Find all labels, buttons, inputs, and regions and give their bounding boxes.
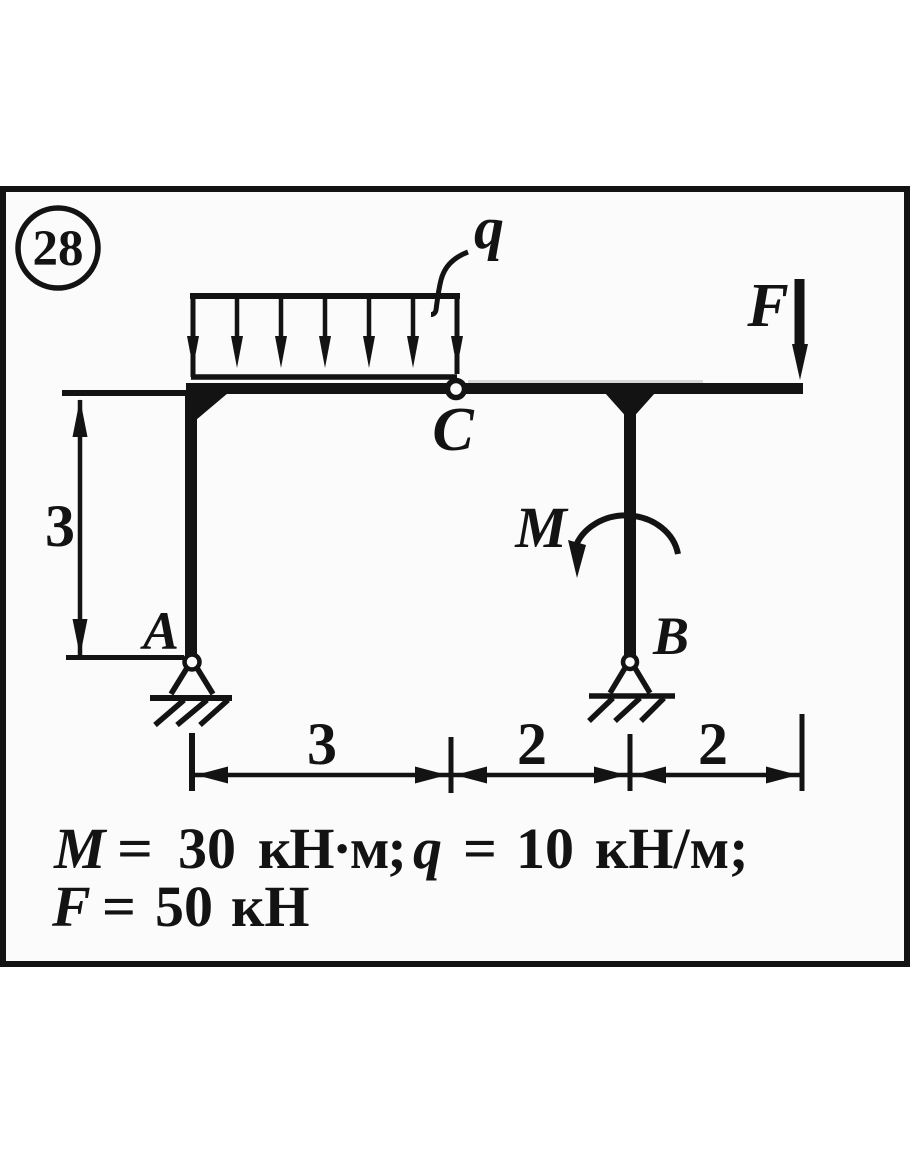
hinge C [448, 381, 465, 398]
distributed load q : side and bottom lines [191, 296, 196, 377]
svg-text:3: 3 [307, 711, 337, 777]
column B [624, 392, 636, 656]
moment M arc [568, 515, 678, 578]
svg-text:A: A [140, 601, 179, 661]
svg-text:28: 28 [33, 221, 84, 277]
distributed load q : arrows [187, 296, 463, 368]
force F arrow [792, 279, 808, 380]
bottom dimension line [192, 773, 802, 778]
pin support B [589, 655, 675, 696]
beam shadow fuzz [468, 380, 703, 384]
column A top fillet [196, 393, 228, 420]
bottom dimension ticks [192, 714, 802, 793]
svg-text:F: F [746, 272, 788, 340]
ground hatching A [155, 700, 228, 725]
bottom dimension arrowheads [196, 767, 798, 784]
ground hatching B [589, 698, 664, 721]
svg-text:2: 2 [517, 711, 547, 777]
circled task number 28 [18, 208, 98, 288]
label q with leader curve [431, 195, 504, 315]
frame border [3, 189, 907, 964]
column A [185, 392, 197, 656]
distributed load q : top line [190, 293, 460, 299]
svg-text:q: q [474, 195, 504, 261]
beam thin left extension line [62, 390, 190, 396]
svg-text:M: M [514, 495, 569, 560]
svg-text:C: C [432, 396, 474, 464]
column B top fillet [605, 393, 655, 421]
svg-text:2: 2 [698, 711, 728, 777]
beam (horizontal member) [186, 383, 803, 394]
svg-text:3: 3 [45, 493, 75, 559]
svg-text:B: B [652, 606, 689, 666]
svg-text:F=50кН: F=50кН [51, 874, 310, 939]
dimension 3 vertical: line with arrowheads [45, 399, 184, 658]
pin support A [150, 655, 232, 699]
